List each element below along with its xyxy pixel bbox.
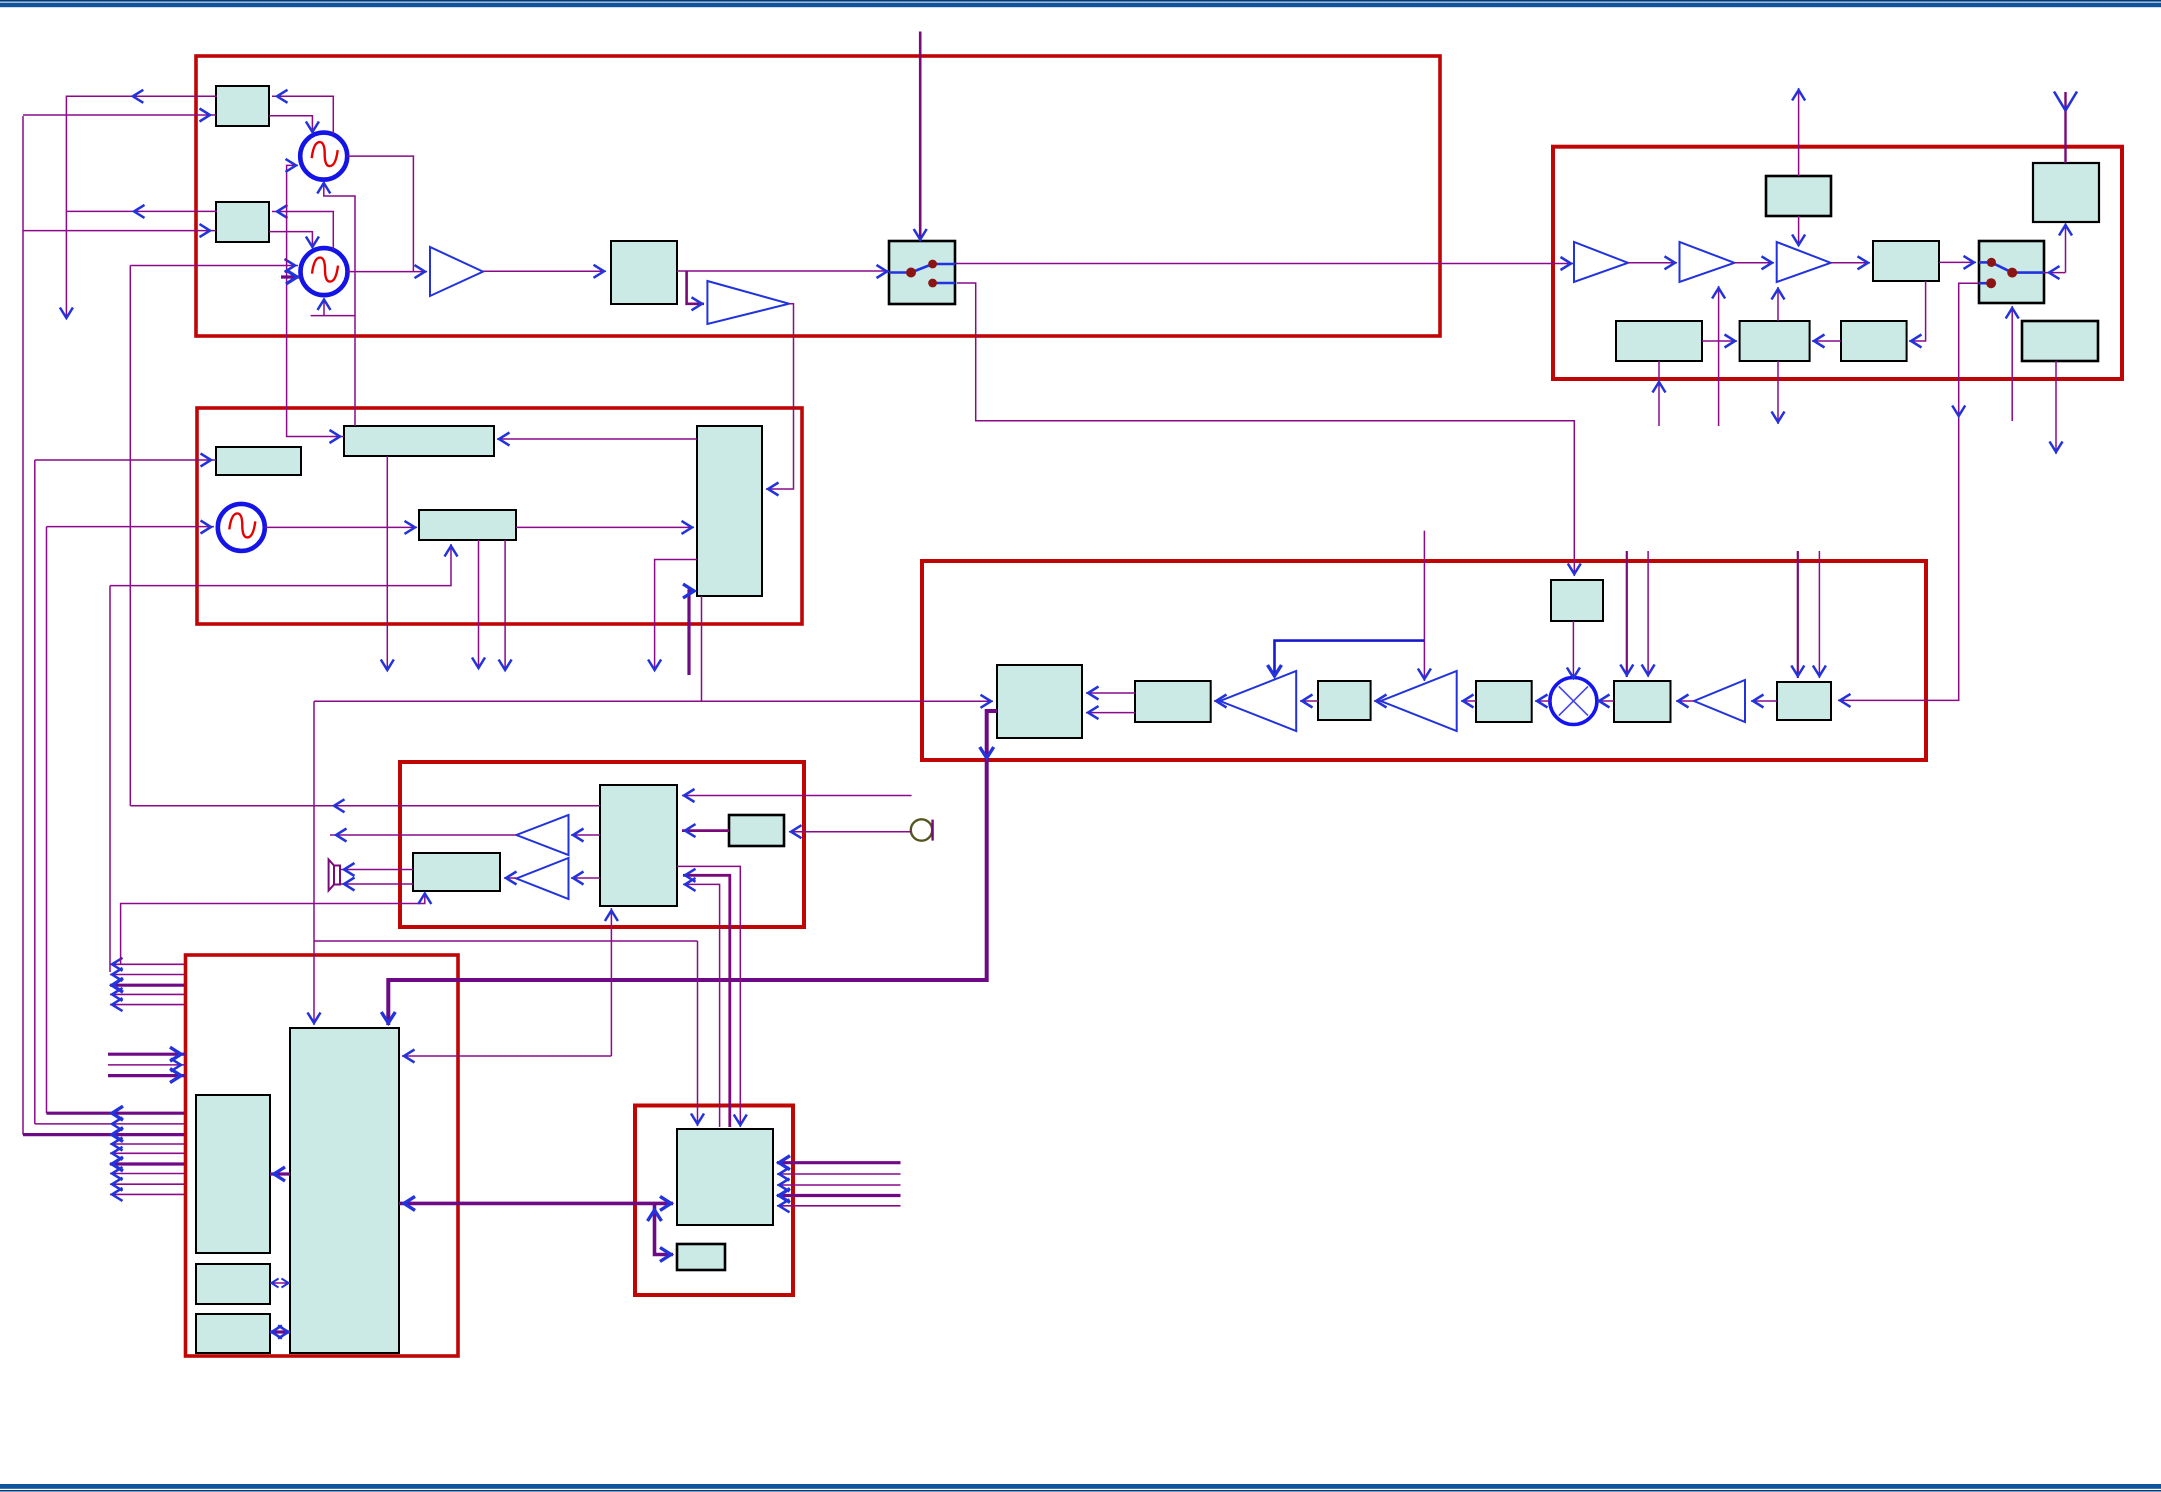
amplifier: IF amp 2 (D T2, left) — [1381, 671, 1457, 731]
wire: VCO output down and right into demod block — [314, 596, 993, 708]
wire: CPU port stub row y=985.2 — [110, 978, 184, 992]
wire: left bus into oscillator 2 input — [130, 259, 298, 272]
wire: microphone to mic preamp — [789, 825, 911, 838]
wire: output stage to speaker (upper) — [341, 863, 414, 876]
wire: oscillator 2 output into TX driver amp — [348, 265, 428, 278]
wire: CPU port stub row y=1194.4 — [110, 1188, 184, 1201]
wire: RF filter D b6 into IF amp 3 — [1751, 695, 1777, 708]
block: RX filter (C b4) — [2022, 321, 2098, 361]
wire: audio processor out right down to keypad ctrl — [677, 866, 747, 1127]
amplifier: RX amp3 (C T3) — [1777, 242, 1831, 282]
wire: navy AGC branch into IF amp 1 — [1268, 641, 1425, 677]
wire: B4 side elbow stub down — [648, 560, 697, 672]
block: harmonic filter (C blk) — [1873, 241, 1939, 281]
wire: CPU port stub row y=1144 — [110, 1138, 184, 1151]
wire: switch C receive line down to RF filter D — [1838, 283, 1979, 707]
wire: control bus down to CPU top — [308, 701, 321, 1025]
group box: receiver IF chain section — [922, 561, 1926, 760]
block: PLL register (B1) — [216, 447, 301, 475]
wire: CPU port stub row y=1164 — [110, 1157, 184, 1171]
wire: IF filter 1 into IF amp 1 — [1300, 695, 1318, 708]
block: image filter (D b5) — [1614, 681, 1671, 722]
wire: left bus into PLL register B1 — [35, 454, 216, 467]
microphone symbol — [911, 819, 933, 840]
wire: image filter D b5 into mixer — [1598, 695, 1615, 708]
wire: TX control stub up into RX amp3 — [1772, 287, 1785, 321]
wire: input stub into CPU group y=1065 — [108, 1058, 185, 1071]
wire: RX filter B4 stub down — [2050, 361, 2063, 454]
block: display driver (G s2) — [677, 1244, 725, 1270]
mixer (multiplier) — [1550, 678, 1597, 725]
wire: TL2 output to left margin — [66, 205, 217, 218]
group box: PLL synthesizer section — [197, 408, 802, 624]
wire: bias control B1 to TX control B2 — [1702, 335, 1737, 348]
wire: squelch stub pair into D b6 (a) — [1791, 551, 1804, 678]
block: IF filter 1 (D b3) — [1318, 681, 1371, 720]
wire: left bus vertical x=110 — [109, 586, 111, 972]
wire: CPU port stub row y=1184.2 — [110, 1178, 184, 1191]
block: antenna switch C — [1979, 241, 2044, 303]
wire: bottom bus into CPU right edge — [402, 1050, 611, 1063]
wire: keypad column input row y=1174 — [777, 1168, 901, 1181]
wire: CPU port stub row y=1153.3 — [110, 1147, 184, 1160]
wire: RX amp2 to RX amp3 — [1734, 256, 1774, 269]
wire: input stub into CPU group y=1076 (thick) — [108, 1069, 185, 1083]
wire: B3 bottom stub down 1 — [472, 540, 485, 669]
wire: bias stub up into RX amp2 — [1712, 286, 1725, 426]
block: RF filter (D b6) — [1777, 682, 1831, 720]
block: memory (F left) — [196, 1095, 270, 1253]
wire: modulator filter to TX/RX switch — [677, 265, 889, 278]
wire: keypad ctrl up into audio processor (thick) — [683, 869, 730, 1127]
block: modulator filter (A2) — [611, 241, 677, 304]
wire: keypad ctrl up into audio processor (thin) — [683, 878, 720, 1127]
oscillator: PLL reference osc — [218, 504, 265, 551]
bottom page border bar (navy line) — [0, 1490, 2161, 1492]
top page border bar (blue band) — [0, 3, 2161, 8]
wire: oscillator bottom trim bus — [317, 183, 355, 426]
wire: audio block output to left bus — [130, 799, 600, 812]
wire: keypad column input row y=1205.8 — [777, 1199, 901, 1212]
wire: LO buffer down into mixer — [1567, 621, 1580, 679]
group box: keypad interface section — [635, 1106, 793, 1296]
wire: CPU port stub row y=974.5 — [110, 968, 184, 981]
block: TX control (C b2) — [1740, 321, 1810, 361]
wire: left bus into PLL reference osc — [47, 521, 215, 534]
block: keypad controller (G big) — [677, 1129, 773, 1225]
amplifier: IF amp 1 (D T1, left) — [1220, 671, 1296, 731]
block: data interface 1 (TL1) — [216, 86, 269, 126]
block: demod/baseband (D big) — [997, 665, 1082, 738]
wire: B2 bottom stub down — [381, 456, 394, 671]
wire: squelch stub pair into D b5 (b) — [1642, 551, 1655, 677]
wire: input stub into CPU group y=1054 (thick) — [108, 1047, 185, 1061]
wire: TX buffer output loop to VCO block B4 — [766, 304, 794, 496]
wire: IF filter 2 into demod (lower) — [1086, 706, 1135, 719]
wire: left bus vertical x=46.5 (PLL osc feed) — [46, 527, 48, 1114]
wire: CPU port stub row y=1173.5 — [110, 1167, 184, 1180]
wire: VCO B4 to phase detector B2 — [497, 433, 697, 446]
wire: TL2 to oscillator 2 top — [269, 232, 319, 248]
block: CPU (F cpu) — [290, 1028, 399, 1353]
wire: TX control stub down below group — [1772, 361, 1785, 424]
wire: IF filter 2 into demod (upper) — [1086, 687, 1135, 700]
wire: loop filter B3 to VCO B4 — [516, 521, 694, 534]
wire: EEPROM to CPU link — [270, 1279, 290, 1288]
switch A contacts and arm — [889, 260, 955, 288]
wire: squelch stub pair into D b6 (b) — [1813, 551, 1826, 678]
amplifier: RX amp2 (C T2) — [1680, 242, 1735, 282]
wire: CPU row to left bus x=23 (thick) — [23, 1128, 184, 1142]
wire: oscillator 1 to TL1 — [272, 90, 333, 134]
wire: thick branch down to display driver — [648, 1203, 674, 1261]
wire: harmonic filter down into detector B3 — [1909, 281, 1926, 348]
wire: branch down into TX buffer amp — [687, 271, 704, 310]
wire: RX audio into audio processor (top right) — [682, 789, 912, 802]
wire: TX driver amp to modulator filter — [483, 265, 606, 278]
wire: switch C to antenna matching — [2044, 224, 2072, 280]
wire: switch A upper output to RF front-end — [955, 257, 1574, 270]
wire: CPU port stub row y=964.3 — [110, 958, 184, 971]
amplifier: audio amp 2 (E T2, left) — [516, 858, 568, 899]
wire: left bus into TL2 input — [23, 224, 216, 237]
wire: audio processor to audio amp 1 — [571, 829, 600, 842]
wire: TL1 to oscillator 1 top — [269, 116, 319, 133]
wire: switch A lower output down to LO buffer — [957, 283, 1581, 576]
wire: keypad column input row y=1162.7 — [777, 1156, 901, 1170]
wire: oscillator 2 bottom trim riser — [311, 300, 355, 316]
block: detector (C b3) — [1841, 321, 1907, 361]
wire: left bus vertical x=34.8 (B1 feed) — [34, 460, 36, 1124]
oscillator: reference osc 2 — [301, 248, 348, 295]
wire: memory to CPU thick link — [270, 1167, 290, 1181]
wire: thick stub into oscillator 2 left (mod input) — [281, 270, 299, 284]
speaker symbol — [329, 860, 340, 891]
group box: controller/CPU section — [186, 955, 459, 1356]
amplifier: IF amp 3 (D T3, left) — [1694, 680, 1745, 722]
top page border bar (navy line) — [0, 0, 2161, 2]
block: VCO/divider (B4) — [697, 426, 762, 596]
wire: clock to CPU thick link — [270, 1326, 290, 1339]
block: TX/RX switch A — [889, 241, 955, 304]
wire: detector B3 to TX control B2 — [1812, 335, 1841, 348]
wire: keypad column input row y=1185 — [777, 1179, 901, 1192]
wire: audio processor to audio amp 2 — [571, 872, 600, 885]
wire: switch C bottom stub — [2006, 306, 2019, 421]
switch C contacts and arm — [1979, 258, 2044, 288]
wire: output stage to speaker (lower) — [341, 878, 414, 891]
wire: power amp down into RX amp3 — [1792, 216, 1805, 246]
block: local oscillator buffer (D small) — [1551, 580, 1603, 621]
block: power amplifier (C top) — [1766, 176, 1831, 216]
wire: speaker-row feed from left bus — [121, 893, 432, 965]
wire: mic preamp to audio processor (thick) — [682, 824, 729, 837]
wire: mixer into crystal filter D b4 — [1535, 695, 1550, 708]
wire: oscillator 2 to TL2 — [272, 205, 333, 250]
wire: crystal filter into IF amp 2 — [1461, 695, 1476, 708]
block: audio processor (E central) — [600, 785, 677, 906]
wire: bottom bus branch down to keypad ctrl — [691, 941, 704, 1126]
wire: CPU port stub row y=994.4 — [110, 988, 184, 1001]
wire: audio amp 1 output to left — [330, 829, 516, 842]
wire: bottom bus branch across — [314, 940, 698, 942]
block: bias control (C b1) — [1616, 321, 1702, 361]
bottom page border bar (blue band) — [0, 1484, 2161, 1489]
wire: thick stub up into B4 left — [683, 584, 695, 675]
block: crystal filter (D b4) — [1476, 681, 1532, 722]
block: audio output stage (E out) — [413, 853, 500, 891]
block: loop filter (B3) — [419, 510, 516, 540]
block: data interface 2 (TL2) — [216, 202, 269, 242]
group box: audio section — [400, 762, 804, 927]
block: phase detector (B2) — [344, 426, 494, 456]
wire: dangling AGC line into IF amp 2 — [1418, 531, 1431, 681]
wire: audio amp 2 into output stage — [504, 872, 517, 885]
wire: RX amp3 to harmonic filter — [1831, 256, 1870, 269]
group box: RF front-end / antenna section — [1553, 147, 2122, 379]
wire: TL1 output to left margin, down stub — [60, 90, 217, 318]
antenna symbol — [2054, 92, 2077, 164]
wire: CPU row to left bus x=46.5 (thick) — [47, 1106, 185, 1120]
amplifier: audio amp 1 (E T1, left) — [516, 815, 568, 855]
wire: CPU port stub row y=1004.6 — [110, 998, 184, 1011]
wire: harmonic filter to antenna switch — [1939, 256, 1976, 269]
wire: keypad column input row y=1195.5 — [777, 1189, 901, 1203]
block: EEPROM (F s2) — [196, 1264, 270, 1304]
wire: LNA to RX amp2 — [1628, 256, 1677, 269]
wire: B3 bottom stub down 2 — [499, 540, 512, 671]
wire: left bus vertical x=130.3 (osc2 feed / audio return) — [129, 266, 131, 806]
wire: CPU row to left bus x=34.8 — [35, 1117, 184, 1130]
wire: oscillator 1 output down to summing node — [347, 156, 413, 272]
amplifier: TX buffer (A T2) — [707, 281, 789, 324]
amplifier: RX LNA (C T1) — [1574, 242, 1628, 282]
wire: power amp up-stub above group — [1792, 88, 1805, 176]
wire: left bus into TL1 input — [23, 109, 216, 122]
wire: thick keypad bus CPU to keypad controller — [399, 1196, 673, 1210]
wire: IF amp 1 into IF filter 2 — [1214, 695, 1227, 708]
oscillator: reference osc 1 — [300, 133, 347, 180]
wire: squelch stub pair into D b5 (a) — [1620, 551, 1633, 677]
block: mic preamp (E mic) — [729, 815, 784, 846]
wire: IF amp 3 into image filter D b5 — [1676, 695, 1694, 708]
block: antenna matching (C ant) — [2033, 163, 2099, 222]
block: IF filter 2 (D b2) — [1135, 681, 1211, 722]
wire: bias control stub below group — [1653, 361, 1666, 426]
group box: transmitter/modulator section — [196, 56, 1440, 336]
wire: PLL osc to loop filter B3 — [265, 521, 417, 534]
block: clock (F s3) — [196, 1314, 270, 1353]
wire: audio processor bottom bus — [605, 908, 618, 1056]
wire: IF amp 2 into IF filter 1 — [1374, 695, 1387, 708]
wire: left bus vertical x=23 (TL inputs) — [22, 116, 24, 1135]
wire: thick audio bus demod to CPU — [381, 711, 997, 1025]
wire: left feed to loop-filter B3 bottom — [110, 544, 458, 586]
wire: phase detector bus to oscillator 1 left input — [286, 159, 345, 443]
wire: PTT input from top into switch A — [914, 32, 927, 242]
amplifier: TX driver (A T1) — [430, 247, 483, 296]
